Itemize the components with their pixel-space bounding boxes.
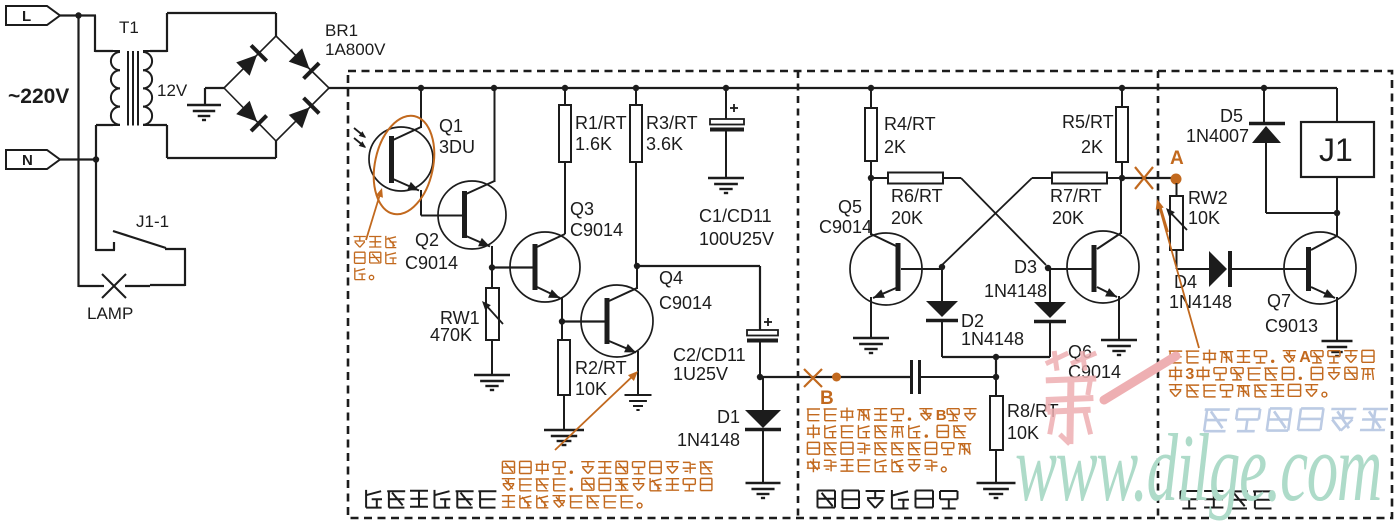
svg-text:T1: T1 (119, 18, 139, 37)
resistor R8/RT 10K (990, 377, 1003, 483)
svg-text:R7/RT: R7/RT (1050, 186, 1102, 206)
svg-text:J1-1: J1-1 (136, 212, 169, 231)
watermark pink character (1046, 351, 1096, 444)
svg-text:3DU: 3DU (439, 137, 475, 157)
connector L (6, 6, 60, 25)
svg-text:Q1: Q1 (439, 116, 463, 136)
svg-text:R3/RT: R3/RT (646, 113, 698, 133)
wire D2-D3 bottoms (942, 356, 1050, 358)
capacitor C2/CD11 1U25V (747, 318, 778, 377)
orange note: solder open here (box1) (502, 461, 713, 475)
node R5 bottom junction (1119, 175, 1125, 181)
ground Q6 emitter (1101, 340, 1137, 355)
svg-text:100U25V: 100U25V (699, 229, 774, 249)
svg-text:3: 3 (1185, 366, 1194, 383)
diode D5 1N4007 (1249, 88, 1337, 213)
ground Q4 emitter (625, 395, 652, 410)
svg-text:~220V: ~220V (8, 85, 69, 108)
node Q3 emitter junction (559, 318, 565, 324)
resistor R5/RT 2K (1116, 88, 1128, 178)
svg-text:D5: D5 (1220, 106, 1243, 126)
resistor R4/RT 2K (865, 88, 877, 178)
svg-text:C9014: C9014 (570, 220, 623, 240)
capacitor trigger (912, 360, 997, 394)
connector N (6, 150, 60, 169)
node A orange dot (1171, 174, 1182, 185)
node rail junction (868, 85, 874, 91)
potentiometer RW2 10K (1166, 183, 1187, 269)
svg-text:1N4007: 1N4007 (1186, 126, 1249, 146)
node rail junction (1119, 85, 1125, 91)
svg-text:C9014: C9014 (819, 217, 872, 237)
ground R2 (544, 430, 584, 445)
relay contact J1-1 (96, 231, 186, 286)
orange note: disconnect at A (box3) (1169, 349, 1374, 366)
node L junction (75, 12, 81, 18)
node rail junction (562, 85, 568, 91)
diode D1 1N4148 (745, 377, 781, 483)
svg-text:1N4148: 1N4148 (1169, 292, 1232, 312)
svg-text:3.6K: 3.6K (646, 134, 683, 154)
svg-text:20K: 20K (891, 208, 923, 228)
svg-text:2K: 2K (884, 137, 906, 157)
section label bistable trigger (818, 490, 958, 509)
transformer T1 (111, 51, 152, 126)
phototransistor Q1 3DU (354, 88, 433, 216)
svg-text:1U25V: 1U25V (673, 364, 728, 384)
svg-text:D1: D1 (717, 407, 740, 427)
dashed divider box2/box3 (1157, 71, 1160, 518)
ground Q7 emitter (1322, 341, 1353, 356)
svg-text:R1/RT: R1/RT (575, 113, 627, 133)
wire Q3 emitter to Q4 base (562, 320, 605, 322)
bridge rectifier BR1 (224, 36, 329, 141)
orange dot B (832, 373, 841, 382)
wire cross-couple R7 to Q5 base (942, 178, 1032, 265)
wire down to R8 node (995, 357, 997, 377)
node R4 bottom junction (868, 175, 874, 181)
node rail junction (418, 85, 424, 91)
svg-text:D2: D2 (961, 311, 984, 331)
resistor R7/RT 20K (1032, 173, 1122, 184)
wire primary bottom to N node (96, 125, 113, 251)
wire secondary bottom to bridge (150, 125, 276, 158)
svg-text:R6/RT: R6/RT (891, 186, 943, 206)
svg-text:R4/RT: R4/RT (884, 114, 936, 134)
node Q7 collector junction (1334, 210, 1340, 216)
watermark pink stroke (1104, 356, 1176, 400)
wire L down to lamp (79, 16, 100, 288)
svg-text:A: A (1170, 148, 1184, 169)
wire rail to J1 top (1336, 88, 1338, 122)
watermark pale blue slogan (1202, 408, 1388, 431)
wire bridge left vertex to ground (205, 88, 224, 105)
dashed box photoelectric section (348, 71, 1392, 518)
node N junction (93, 156, 99, 162)
wire (60, 16, 113, 53)
transistor Q4 C9014 (581, 266, 653, 395)
svg-text:D4: D4 (1174, 272, 1197, 292)
svg-text:C9013: C9013 (1265, 316, 1318, 336)
svg-text:470K: 470K (430, 325, 472, 345)
svg-text:L: L (22, 8, 31, 25)
wire B node (760, 376, 911, 378)
svg-text:N: N (22, 152, 33, 169)
svg-text:A: A (1299, 349, 1311, 366)
svg-text:C9014: C9014 (659, 293, 712, 313)
dashed divider box1/box2 (797, 71, 800, 518)
diode D4 1N4148 (1177, 251, 1307, 287)
orange note: disconnect at B (box2) (807, 407, 977, 424)
svg-text:C2/CD11: C2/CD11 (673, 345, 746, 365)
node C2 bottom junction (757, 374, 763, 380)
svg-text:12V: 12V (157, 81, 188, 100)
svg-text:1N4148: 1N4148 (677, 430, 740, 450)
svg-text:2K: 2K (1081, 137, 1103, 157)
resistor R2/RT 10K (558, 322, 570, 431)
orange annotation arrow box1 (555, 371, 638, 450)
svg-text:B: B (936, 407, 947, 424)
watermark teal url (1015, 415, 1381, 521)
node rail junction (633, 85, 639, 91)
capacitor C1/CD11 100U25V (710, 88, 744, 178)
transistor Q6 C9014 (1048, 178, 1139, 340)
orange annotation arrow box3 (1156, 199, 1199, 348)
wire Q2 emitter to Q3 base (492, 266, 533, 268)
orange X mark B (804, 369, 822, 387)
diode D2 1N4148 (926, 267, 958, 357)
transistor Q7 C9013 (1284, 232, 1356, 341)
svg-text:1N4148: 1N4148 (984, 281, 1047, 301)
resistor R6/RT 20K (871, 173, 961, 184)
ground R8 (977, 483, 1016, 498)
wire main supply rail (329, 87, 1337, 89)
svg-text:www.dilge.com: www.dilge.com (1015, 415, 1381, 521)
orange annotation arrow to Q1 (366, 188, 383, 240)
relay coil J1 (1301, 122, 1374, 177)
svg-text:B: B (820, 388, 834, 409)
orange note: block the light (354, 236, 397, 248)
node Q6 base junction (1045, 265, 1051, 271)
wire secondary top to bridge (150, 13, 276, 52)
ground C1 (708, 178, 744, 193)
svg-text:10K: 10K (575, 379, 607, 399)
ground D1 (746, 483, 781, 498)
node R3/Q4 collector junction (634, 263, 640, 269)
node diode bottom junction (993, 354, 999, 360)
svg-text:Q2: Q2 (415, 230, 439, 250)
svg-text:R5/RT: R5/RT (1062, 112, 1114, 132)
svg-text:1N4148: 1N4148 (961, 329, 1024, 349)
svg-text:LAMP: LAMP (87, 304, 133, 323)
wire cross-couple R6 to Q6 base (961, 178, 1046, 265)
svg-text:C9014: C9014 (405, 253, 458, 273)
svg-text:BR1: BR1 (325, 21, 358, 40)
svg-text:20K: 20K (1052, 208, 1084, 228)
svg-text:1.6K: 1.6K (575, 134, 612, 154)
lamp LAMP (99, 274, 150, 298)
ground bridge (187, 105, 221, 120)
svg-text:Q5: Q5 (838, 197, 862, 217)
wire Q4 collector node to C2 (637, 266, 760, 330)
transistor Q2 C9014 (421, 88, 506, 268)
node rail junction (723, 85, 729, 91)
ground Q5 emitter (853, 338, 889, 353)
wire N to junction (60, 158, 96, 160)
section label photoelectric circuit (366, 490, 496, 508)
wire R5 node to A (1122, 177, 1171, 179)
transistor Q5 C9014 (mirrored) (850, 178, 942, 338)
node R8 top junction (993, 374, 999, 380)
resistor R1/RT 1.6K (559, 88, 571, 234)
svg-text:R2/RT: R2/RT (575, 358, 627, 378)
svg-text:10K: 10K (1188, 208, 1220, 228)
wire J1 bottom to Q7 (1336, 177, 1338, 237)
potentiometer RW1 470K (482, 268, 503, 376)
orange ellipse highlight around Q1 (365, 110, 443, 220)
svg-text:RW2: RW2 (1188, 188, 1228, 208)
node Q2 emitter junction (489, 264, 495, 270)
svg-text:J1: J1 (1319, 132, 1353, 168)
svg-text:D3: D3 (1014, 257, 1037, 277)
svg-text:1A800V: 1A800V (325, 40, 386, 59)
transistor Q3 C9014 (510, 232, 580, 322)
diode D3 1N4148 (1034, 269, 1066, 357)
resistor R3/RT 3.6K (630, 88, 642, 266)
svg-text:Q4: Q4 (659, 268, 683, 288)
node rail junction (491, 85, 497, 91)
node Q5 base junction (939, 264, 945, 270)
section label execute circuit (1181, 491, 1273, 509)
svg-text:Q7: Q7 (1267, 291, 1291, 311)
ground RW1 (474, 375, 510, 390)
svg-text:Q3: Q3 (570, 199, 594, 219)
node rail junction (1261, 85, 1267, 91)
orange X mark A (1135, 167, 1153, 189)
svg-text:C1/CD11: C1/CD11 (699, 206, 772, 226)
